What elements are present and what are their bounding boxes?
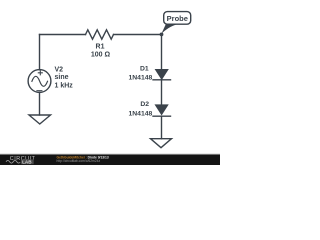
svg-text:V2: V2: [55, 67, 64, 74]
V2 plus sign: [38, 71, 42, 75]
svg-text:sine: sine: [55, 74, 69, 81]
footer logo sine squiggle: [6, 160, 20, 163]
wire node to D1 anode: [161, 35, 163, 70]
svg-text:1 kHz: 1 kHz: [55, 83, 74, 90]
wire R1 right to node: [114, 34, 162, 36]
wire D1 cathode to D2 anode: [161, 80, 163, 105]
wire top-left vertical (source top to corner): [39, 35, 41, 70]
footer logo LAB box: [21, 159, 34, 164]
wire top horizontal (corner to R1 left): [40, 34, 86, 36]
resistor R1 zigzag: [86, 30, 114, 39]
svg-text:D1: D1: [140, 66, 149, 73]
diode D2 cathode bar: [153, 115, 171, 117]
wire D2 cathode to ground: [161, 117, 163, 139]
probe flag tail: [161, 24, 178, 34]
ground (right): [151, 139, 172, 148]
V2 sine symbol: [32, 76, 48, 86]
svg-text:Probe: Probe: [167, 14, 188, 23]
voltage source V2 circle: [28, 70, 51, 93]
svg-text:1N4148: 1N4148: [128, 74, 152, 81]
diode D1 cathode bar: [153, 79, 171, 81]
wire source bottom to ground: [39, 92, 41, 115]
svg-text:D2: D2: [140, 101, 149, 108]
svg-text:1N4148: 1N4148: [128, 111, 152, 118]
V2 minus sign: [37, 90, 42, 92]
svg-text:http://circuitlab.com/c/62m24z: http://circuitlab.com/c/62m24z: [57, 159, 101, 163]
svg-text:LAB: LAB: [22, 160, 32, 165]
node junction dot: [160, 33, 164, 37]
ground (left): [29, 115, 51, 124]
probe flag box: [164, 12, 191, 25]
diode D2 triangle: [155, 105, 168, 115]
diode D1 triangle: [155, 69, 168, 79]
svg-text:R1: R1: [96, 43, 105, 50]
svg-text:100 Ω: 100 Ω: [91, 52, 111, 59]
